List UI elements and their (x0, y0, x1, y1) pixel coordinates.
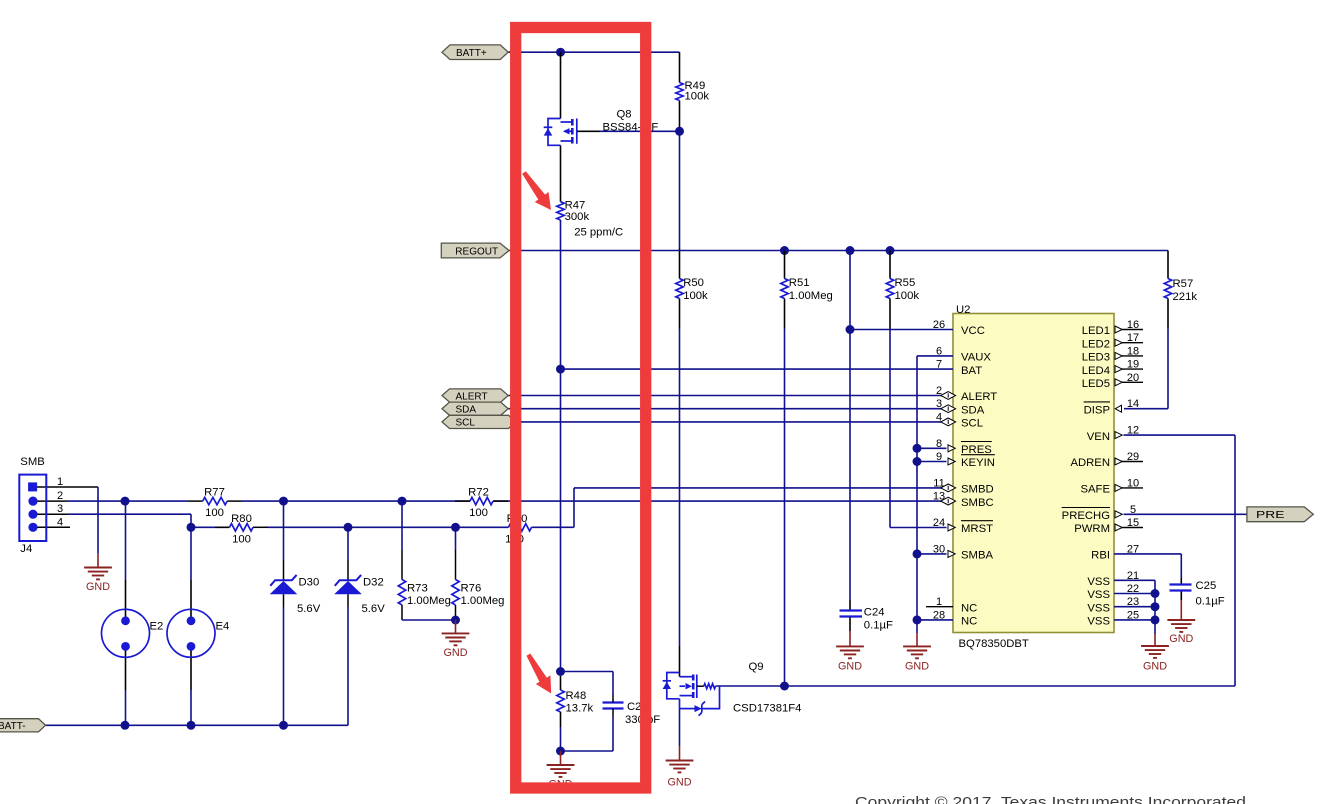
wire R77 leads (black) (188, 500, 203, 502)
wire R49 top lead (black) (679, 52, 681, 82)
wire VSS to GND (maroon) (1154, 634, 1156, 646)
resistor R50 (676, 279, 683, 299)
svg-text:R77: R77 (204, 487, 225, 499)
zener diode D32 5.6V (334, 575, 362, 594)
net DISP wire from R57 (1124, 408, 1168, 410)
svg-text:13.7k: 13.7k (566, 703, 594, 715)
ground GND (Q9 source) (666, 760, 694, 762)
resistor R70 (509, 524, 532, 531)
net MRST wire to pin 24 (890, 527, 947, 529)
pin stub LED5 (1115, 381, 1143, 383)
net SDA wire (508, 408, 953, 410)
marker bidirectional pin 3 SDA (941, 405, 956, 413)
wire node A down to R50 (679, 131, 681, 248)
svg-text:3: 3 (57, 503, 63, 515)
junction VSS pin 25 (1151, 615, 1160, 624)
svg-text:0.1µF: 0.1µF (864, 620, 893, 632)
node BATT+ flag (442, 45, 508, 60)
junction node BAT divider (556, 365, 565, 374)
net SMBA wire to pin 30 (917, 553, 947, 555)
wire R55 leads (black) (889, 251, 891, 279)
red highlight rectangle (516, 28, 646, 789)
svg-text:LED5: LED5 (1082, 378, 1110, 390)
svg-text:2: 2 (57, 490, 63, 502)
svg-text:GND: GND (905, 661, 929, 673)
svg-text:221k: 221k (1173, 291, 1198, 303)
svg-text:R55: R55 (895, 277, 916, 289)
wire C24 bottom lead (black+maroon) (849, 617, 851, 632)
svg-text:CSD17381F4: CSD17381F4 (733, 703, 801, 715)
marker bidirectional pin 2 ALERT (941, 392, 956, 400)
net SCL wire (514, 421, 953, 423)
svg-text:100: 100 (205, 507, 224, 519)
net Q9 gate row wire (716, 685, 1236, 687)
net BATT- row (46, 724, 349, 726)
svg-text:Q8: Q8 (616, 109, 631, 121)
junction D32 / row (344, 523, 353, 532)
junction SMBA / gnd line (913, 549, 922, 558)
marker output pin 16 LED1 (1115, 326, 1122, 333)
wire C25 bottom lead (black+maroon) (1180, 591, 1182, 601)
svg-text:5.6V: 5.6V (297, 603, 321, 615)
svg-text:100: 100 (232, 533, 251, 545)
wire R57 top lead (black) (1167, 251, 1169, 279)
junction R73/R76 gnd node (451, 616, 460, 625)
svg-text:SMBA: SMBA (961, 550, 993, 562)
resistor R73 (398, 580, 405, 606)
svg-text:SMB: SMB (20, 456, 44, 468)
svg-text:ALERT: ALERT (961, 391, 997, 403)
wire R57 bottom lead (black) (1167, 299, 1169, 329)
svg-text:ALERT: ALERT (456, 391, 488, 402)
svg-text:RBI: RBI (1091, 550, 1110, 562)
svg-text:GND: GND (1169, 633, 1193, 645)
net R55 bottom to MRST (889, 329, 891, 528)
net J4 pin1 wire to GND (37, 486, 98, 488)
net VSS pin 23 stub (1114, 606, 1155, 608)
net KEYIN wire to pin 9 (917, 461, 947, 463)
net R73 bottom to gnd row (401, 605, 403, 620)
svg-text:1.00Meg: 1.00Meg (789, 290, 833, 302)
svg-text:LED1: LED1 (1082, 325, 1110, 337)
marker output pin 10 SAFE (1115, 484, 1122, 491)
net J4 pin4 stub (black, NC) (37, 526, 70, 528)
resistor R48 (557, 690, 564, 712)
marker output pin 5 PRECHG (1115, 511, 1122, 518)
junction node BATT+ / Q8 source (556, 48, 565, 57)
svg-text:VCC: VCC (961, 325, 985, 337)
net Q9 source down to GND (679, 709, 681, 746)
junction R76 / row (451, 523, 460, 532)
svg-text:VSS: VSS (1087, 589, 1110, 601)
net R80 row (191, 526, 230, 528)
net PRES wire to pin 8 (917, 447, 947, 449)
junction E2 / row (121, 497, 130, 506)
net R51 bottom to Q9 gate node (784, 329, 786, 687)
svg-text:PRE: PRE (1256, 509, 1285, 521)
marker input pin 9 KEYIN (948, 458, 955, 465)
svg-text:E4: E4 (216, 621, 230, 633)
marker output pin 29 ADREN (1115, 458, 1122, 465)
net R80 row middle (268, 526, 509, 528)
svg-text:SAFE: SAFE (1080, 484, 1110, 496)
net NC28 wire to pin 28 (917, 619, 953, 621)
net BAT vertical down to R48 (560, 369, 562, 671)
svg-text:DISP: DISP (1084, 404, 1110, 416)
svg-text:100k: 100k (683, 290, 708, 302)
net VAUX wire (917, 355, 953, 357)
junction D30 / BATT- (279, 721, 288, 730)
marker input pin 14 DISP (1115, 405, 1121, 412)
svg-text:BATT+: BATT+ (456, 48, 487, 59)
wire R80 leads (black) (215, 526, 230, 528)
svg-text:R57: R57 (1173, 278, 1194, 290)
node SCL flag (442, 415, 516, 428)
net VEN vertical to Q9 gate row (1234, 435, 1236, 686)
marker bidirectional pin 11 SMBD (941, 484, 956, 492)
net R57 bottom vertical (1167, 329, 1169, 409)
net BAT wire to pin 7 (561, 368, 954, 370)
svg-text:4: 4 (57, 516, 63, 528)
marker output pin 19 LED4 (1115, 366, 1122, 373)
wire Q9 source to zener row (679, 699, 681, 709)
resistor R51 (781, 279, 788, 299)
pin stub LED4 (1115, 368, 1143, 370)
net VCC wire to pin 26 (850, 329, 953, 331)
svg-text:R50: R50 (683, 277, 704, 289)
resistor R47 (557, 202, 564, 220)
svg-text:C24: C24 (864, 607, 885, 619)
svg-text:R72: R72 (468, 487, 489, 499)
pin stub LED2 (1115, 342, 1143, 344)
wire R48 bottom lead (black) (560, 712, 562, 727)
svg-text:BATT-: BATT- (0, 721, 26, 732)
net GND pulldown vertical at x917 (916, 356, 918, 620)
net PRECHG wire to PRE flag (1124, 513, 1248, 515)
net D32 vertical top (347, 527, 349, 560)
net R76 vertical top (455, 527, 457, 550)
svg-text:VAUX: VAUX (961, 352, 991, 364)
resistor R57 (1164, 279, 1171, 299)
net VCC branch vertical (849, 251, 851, 330)
ground GND (C25) (1167, 619, 1195, 621)
resistor R77 (203, 497, 228, 504)
op-amp U2 BQ78350DBT body (953, 314, 1114, 633)
wire C23 top loop (561, 671, 614, 673)
net VSS pin 25 stub (1114, 619, 1155, 621)
junction node R48 top / C23 (556, 667, 565, 676)
svg-text:J4: J4 (20, 543, 32, 555)
svg-text:VEN: VEN (1087, 431, 1110, 443)
svg-text:PRECHG: PRECHG (1062, 510, 1110, 522)
net J4 pin3 wire (37, 513, 67, 515)
net ALERT wire (508, 395, 953, 397)
pin stub NC pin 1 (926, 606, 953, 608)
marker output pin 12 VEN (1115, 432, 1122, 439)
svg-text:100k: 100k (895, 290, 920, 302)
svg-text:Q9: Q9 (748, 661, 763, 673)
svg-text:R47: R47 (565, 200, 586, 212)
net R70 right to SMBD jog (532, 526, 575, 528)
svg-text:300k: 300k (565, 211, 590, 223)
net VSS pin 21 wire (1114, 579, 1155, 581)
svg-text:GND: GND (444, 647, 468, 659)
junction Q9 gate / R51 (780, 682, 789, 691)
svg-text:5.6V: 5.6V (362, 603, 386, 615)
zener diode D30 5.6V (270, 575, 298, 594)
marker input pin 24 MRST (948, 524, 955, 531)
ground GND (VSS) (1141, 645, 1169, 647)
pin stub LED3 (1115, 355, 1143, 357)
junction PRES / gnd line (913, 444, 922, 453)
svg-text:GND: GND (838, 661, 862, 673)
junction NC28 / gnd line (913, 615, 922, 624)
wire Q8 gate to node A (600, 130, 680, 132)
capacitor C25 (1170, 583, 1192, 585)
red arrow pointing at R47 (517, 168, 558, 215)
net E4 verticals (190, 527, 192, 580)
marker output pin 17 LED2 (1115, 339, 1122, 346)
svg-text:R80: R80 (231, 513, 252, 525)
svg-text:KEYIN: KEYIN (961, 457, 995, 469)
marker bidirectional pin 4 SCL (941, 418, 956, 426)
net VSS pin 22 stub (1114, 593, 1155, 595)
junction E2 / BATT- (121, 721, 130, 730)
junction D30 / row (279, 497, 288, 506)
wire Q8 drain to R47 (black leads) (560, 145, 562, 201)
svg-text:BAT: BAT (961, 365, 982, 377)
net SMBD wire (574, 487, 953, 489)
ground GND (J4 pin1) (84, 567, 112, 569)
net VCC branch down to C24 (849, 330, 851, 601)
ground GND (U2 pulldown line) (903, 645, 931, 647)
node PRE flag (1247, 507, 1313, 522)
marker output pin 18 LED3 (1115, 352, 1122, 359)
node REGOUT flag (441, 243, 509, 258)
net BAT vertical: R47 bottom through REGOUT crossing (560, 220, 562, 369)
junction REGOUT / VCC branch (846, 246, 855, 255)
wire R72 leads (black) (455, 500, 470, 502)
svg-text:NC: NC (961, 602, 977, 614)
svg-text:LED2: LED2 (1082, 338, 1110, 350)
svg-text:R76: R76 (461, 583, 482, 595)
svg-text:1.00Meg: 1.00Meg (461, 595, 505, 607)
pin stub SAFE (1115, 487, 1143, 489)
resistor R55 (886, 279, 893, 299)
svg-text:LED4: LED4 (1082, 365, 1110, 377)
capacitor C24 (840, 609, 863, 611)
node SDA flag (442, 402, 508, 415)
svg-text:GND: GND (86, 581, 110, 593)
marker input pin 30 SMBA (948, 550, 955, 557)
svg-text:VSS: VSS (1087, 616, 1110, 628)
junction REGOUT / R51 (780, 246, 789, 255)
svg-text:VSS: VSS (1087, 602, 1110, 614)
red arrow pointing at R48 (521, 650, 558, 698)
svg-text:SCL: SCL (961, 418, 983, 430)
net D30 vertical top (283, 501, 285, 560)
net R73 vertical top (401, 501, 403, 550)
net SMBC row right of R72 (493, 500, 953, 502)
wire C25 top lead (black) (1180, 578, 1182, 585)
svg-text:BQ78350DBT: BQ78350DBT (959, 638, 1029, 650)
ground GND (C24) (836, 645, 864, 647)
svg-text:25 ppm/C: 25 ppm/C (574, 227, 623, 239)
resistor R76 (452, 580, 459, 606)
svg-text:SCL: SCL (456, 418, 476, 429)
node BATT- flag (0, 719, 46, 732)
svg-text:Copyright © 2017, Texas Instru: Copyright © 2017, Texas Instruments Inco… (855, 794, 1246, 804)
marker bidirectional pin 13 SMBC (941, 497, 956, 505)
svg-text:R48: R48 (566, 690, 587, 702)
svg-text:R73: R73 (407, 583, 428, 595)
wire R48 top lead (black) (560, 676, 562, 690)
net RBI wire (1114, 553, 1181, 555)
junction VSS pin 22 (1151, 589, 1160, 598)
svg-text:D30: D30 (299, 577, 320, 589)
svg-text:C25: C25 (1196, 580, 1217, 592)
svg-text:SMBC: SMBC (961, 497, 994, 509)
junction E4 / BATT- (187, 721, 196, 730)
net D32 vertical bottom (347, 594, 349, 607)
transistor Q9 CSD17381F4 (N-MOSFET with gate resistor and zener) (663, 673, 720, 716)
svg-text:SMBD: SMBD (961, 484, 994, 496)
net RBI vertical to C25 (1180, 554, 1182, 578)
svg-text:GND: GND (1143, 660, 1167, 672)
junction E4 / R80 row (187, 523, 196, 532)
resistor R72 (470, 497, 493, 504)
net VSS vertical (1154, 580, 1156, 634)
junction KEYIN / gnd line (913, 457, 922, 466)
net VEN wire (1124, 434, 1236, 436)
transistor Q8 BSS84-7-F (P-MOSFET) (544, 119, 577, 146)
net SMBD jog down to R70 row (573, 488, 575, 527)
wire R49 bottom lead (black) (679, 101, 681, 132)
net SMBC row from J4 pin 2 (37, 500, 67, 502)
junction node A: R49 / Q8 gate / R50 (675, 127, 684, 136)
ground GND (R48/C23) (547, 764, 575, 766)
svg-text:100: 100 (469, 507, 488, 519)
marker input pin 8 PRES (948, 445, 955, 452)
node ALERT flag (442, 389, 508, 402)
net D30 vertical bottom (283, 594, 285, 607)
resistor R80 (230, 524, 254, 531)
net E2 verticals (125, 501, 127, 580)
net pin3 jog down (190, 514, 192, 527)
wire R51 leads (784, 251, 786, 279)
wire Q8 source lead (black) (560, 52, 562, 118)
pin stub PWRM (1115, 527, 1143, 529)
shield terminal E4 (167, 609, 215, 657)
net BATT+ wire (508, 51, 679, 53)
svg-text:LED3: LED3 (1082, 352, 1110, 364)
pin stub LED1 (1115, 329, 1143, 331)
wire R50 bottom to Q9 drain (679, 299, 681, 329)
pin stub ADREN (1115, 461, 1143, 463)
svg-text:D32: D32 (363, 577, 384, 589)
capacitor C23 (603, 701, 624, 703)
svg-text:SDA: SDA (456, 405, 477, 416)
net R76 bottom lead (455, 605, 457, 620)
svg-text:R51: R51 (789, 277, 810, 289)
junction VSS pin 23 (1151, 602, 1160, 611)
svg-text:VSS: VSS (1087, 576, 1110, 588)
svg-text:GND: GND (668, 777, 692, 789)
ground GND (R73/R76) (442, 632, 470, 634)
junction VCC branch / pin 26 (846, 325, 855, 334)
svg-text:1: 1 (57, 476, 63, 488)
svg-text:MRST: MRST (961, 523, 993, 535)
svg-text:U2: U2 (956, 304, 970, 316)
resistor R49 (676, 83, 683, 101)
svg-text:PWRM: PWRM (1074, 523, 1110, 535)
marker output pin 20 LED5 (1115, 379, 1122, 386)
connector J4 SMB (19, 475, 46, 541)
wire gnd line to GND symbol (maroon) (916, 620, 918, 633)
junction R73 / row (398, 497, 407, 506)
svg-text:100k: 100k (685, 91, 710, 103)
wire C24 top lead (black) (849, 600, 851, 611)
wire gnd node to GND symbol (maroon) (455, 620, 457, 633)
svg-text:NC: NC (961, 616, 977, 628)
marker output pin 15 PWRM (1115, 524, 1122, 531)
shield terminal E2 (102, 609, 150, 657)
svg-text:ADREN: ADREN (1070, 457, 1110, 469)
junction node R48 bottom / C23 / GND (556, 747, 565, 756)
junction REGOUT / R55 (886, 246, 895, 255)
svg-text:SDA: SDA (961, 404, 985, 416)
svg-text:E2: E2 (150, 621, 164, 633)
net REGOUT wire (509, 250, 1168, 252)
wire C23 bottom loop (612, 717, 614, 752)
wire R48 gnd lead (maroon) (560, 751, 562, 765)
svg-text:1.00Meg: 1.00Meg (407, 595, 451, 607)
net SMBC row middle (242, 500, 470, 502)
svg-text:0.1µF: 0.1µF (1196, 596, 1225, 608)
svg-text:REGOUT: REGOUT (455, 246, 498, 257)
